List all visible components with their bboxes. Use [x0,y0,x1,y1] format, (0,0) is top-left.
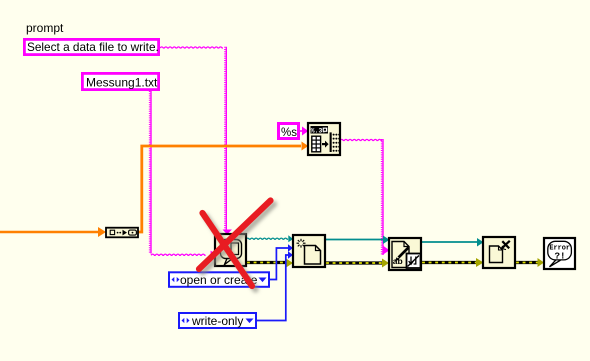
svg-text:Select a data file to write.: Select a data file to write. [27,40,159,54]
svg-text:write-only: write-only [191,314,243,328]
svg-text:?!: ?! [554,251,565,262]
svg-text:%s: %s [281,127,297,139]
svg-text:prompt: prompt [26,21,64,35]
svg-text:ab: ab [393,256,403,266]
svg-text:Messung1.txt: Messung1.txt [86,76,158,90]
